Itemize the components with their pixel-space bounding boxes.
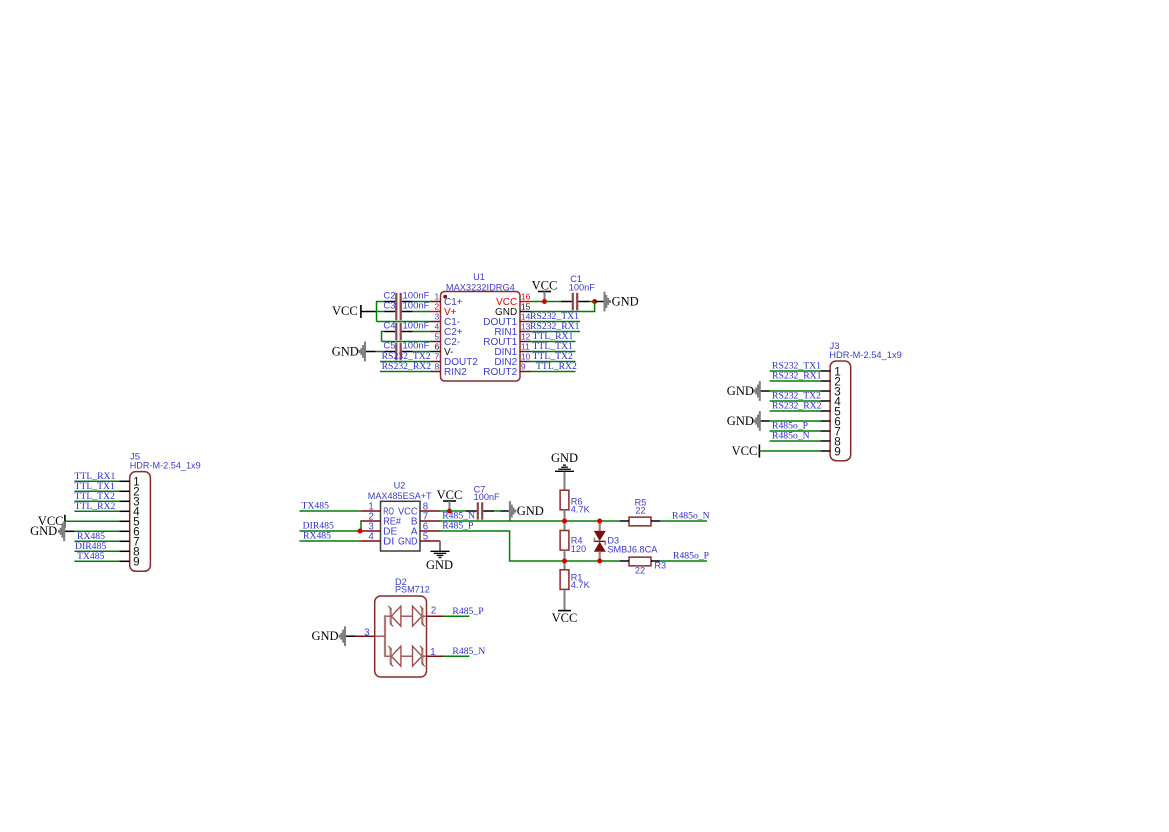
svg-text:RS232_RX2: RS232_RX2 <box>382 361 432 372</box>
wire RS232_TX1 to J3 <box>770 370 821 372</box>
J3 pin 5 <box>820 410 830 412</box>
svg-text:GND: GND <box>398 536 418 547</box>
svg-text:1: 1 <box>430 647 435 658</box>
svg-text:10: 10 <box>521 352 531 362</box>
resistor R5 22 <box>629 517 651 526</box>
U1 pin 3 (C1-) <box>431 321 441 323</box>
wire RS232_RX2 to J3 <box>770 410 821 412</box>
D2 pin 3 (GND side) <box>375 635 385 637</box>
svg-text:GND: GND <box>551 451 578 465</box>
svg-text:U2: U2 <box>394 481 406 491</box>
svg-text:GND: GND <box>312 629 339 643</box>
svg-text:5: 5 <box>434 332 439 342</box>
svg-text:R485_P: R485_P <box>442 520 473 531</box>
U2 pin 2 (RE#) <box>360 520 380 522</box>
wire C5 to U1 pin6 <box>413 351 431 353</box>
connector J5 body <box>130 472 151 572</box>
svg-text:6: 6 <box>434 342 439 352</box>
svg-text:4.7K: 4.7K <box>571 580 591 590</box>
svg-text:4: 4 <box>368 532 374 543</box>
U2 pin 4 (DI) <box>360 540 380 542</box>
J5 pin 5 <box>119 520 129 522</box>
svg-text:9: 9 <box>834 445 841 458</box>
svg-text:R485_N: R485_N <box>452 646 485 657</box>
J5 pin 7 <box>119 540 129 542</box>
J3 pin 7 <box>820 430 830 432</box>
svg-text:GND: GND <box>727 384 754 398</box>
svg-text:MAX3232IDRG4: MAX3232IDRG4 <box>446 283 515 294</box>
wire U1 pin15 (GND) to junction <box>531 302 595 312</box>
wire junction to GND flag <box>595 301 604 303</box>
svg-text:GND: GND <box>332 344 359 358</box>
D2 internal TVS pair bottom <box>385 655 391 657</box>
U1 pin 11 (DIN1) <box>520 351 531 353</box>
svg-text:GND: GND <box>727 414 754 428</box>
svg-text:HDR-M-2.54_1x9: HDR-M-2.54_1x9 <box>829 350 902 361</box>
U2 pin 7 (B) <box>420 520 440 522</box>
resistor R1 4.7K <box>560 570 569 590</box>
wire vertical C2-left to pin3 row <box>376 301 378 322</box>
IC U2 MAX485ESA+T body <box>381 501 421 551</box>
svg-text:9: 9 <box>133 556 140 569</box>
wire RX485 to J5 <box>74 540 119 542</box>
wire R5 to R485o_N end <box>660 520 707 522</box>
wire RS232_RX1 <box>531 331 581 333</box>
wire TX485 to J5 <box>74 560 119 562</box>
junction D3 top <box>597 519 602 524</box>
junction at VCC/pin16 <box>542 299 547 304</box>
svg-text:GND: GND <box>426 558 453 572</box>
svg-text:R3: R3 <box>654 560 666 570</box>
wire DIR485 to U2 pin3 <box>299 530 360 532</box>
D2 internal TVS pair top <box>385 615 391 617</box>
J3 pin 3 <box>820 390 830 392</box>
wire GND to C5 <box>376 351 385 353</box>
wire TTL_RX1 <box>531 341 576 343</box>
wire RS232_RX1 to J3 <box>770 380 821 382</box>
wire U2 pin8 to VCC junction <box>440 510 450 512</box>
svg-text:2: 2 <box>431 606 436 617</box>
svg-text:ROUT2: ROUT2 <box>483 367 517 378</box>
svg-text:VCC: VCC <box>332 304 358 318</box>
svg-text:11: 11 <box>521 342 530 352</box>
U1 pin 6 (V-) <box>431 351 441 353</box>
U1 pin 4 (C2+) <box>431 331 441 333</box>
wire U2 pin2 loop down <box>360 521 362 531</box>
J3 pin 1 <box>820 370 830 372</box>
wire C2 left to corner <box>377 301 385 303</box>
svg-text:22: 22 <box>635 566 645 576</box>
U2 pin 6 (A) <box>420 530 440 532</box>
svg-text:VCC: VCC <box>732 444 758 458</box>
wire R3 to R485o_P end <box>660 560 707 562</box>
J5 pin 1 <box>119 480 129 482</box>
wire VCC junction to C7 <box>450 510 467 512</box>
svg-text:120: 120 <box>571 544 586 554</box>
svg-text:RIN2: RIN2 <box>444 367 467 378</box>
wire VCC junction to C1 <box>545 301 562 303</box>
D2 internal vertical link <box>384 615 386 657</box>
wire GND to J3 pin6 <box>770 420 821 422</box>
J3 pin 4 <box>820 400 830 402</box>
svg-text:1: 1 <box>434 292 439 302</box>
J3 pin 8 <box>820 440 830 442</box>
junction R6/R485o_N row <box>562 519 567 524</box>
wire VCC to C3 <box>376 311 385 313</box>
wire TTL_TX2 to J5 <box>74 500 119 502</box>
ground flag GND right of C7 <box>509 501 511 521</box>
capacitor C2 100nF <box>395 293 397 310</box>
U1 pin 8 (RIN2) <box>431 371 441 373</box>
D2 pin 2 <box>427 615 445 617</box>
IC U1 MAX3232IDRG4 body <box>441 292 521 382</box>
svg-text:4.7K: 4.7K <box>571 504 591 514</box>
svg-text:8: 8 <box>434 362 439 372</box>
capacitor C5 100nF <box>395 343 397 360</box>
U1 pin 16 (VCC) <box>520 301 531 303</box>
svg-text:7: 7 <box>434 352 439 362</box>
J5 pin 4 <box>119 510 129 512</box>
J5 pin 8 <box>119 550 129 552</box>
wire vertical C4-left to pin5 row <box>381 331 383 342</box>
junction D3 bottom <box>597 559 602 564</box>
J3 pin 2 <box>820 380 830 382</box>
U2 pin 8 (VCC) <box>420 510 440 512</box>
wire C4 left to corner <box>382 331 385 333</box>
svg-text:MAX485ESA+T: MAX485ESA+T <box>368 491 432 502</box>
svg-text:GND: GND <box>612 294 639 308</box>
svg-text:VCC: VCC <box>532 279 558 293</box>
U1 pin 13 (RIN1) <box>520 331 531 333</box>
wire C2 right lead to U1 pin1 <box>413 301 431 303</box>
wire VCC to J5 pin5 <box>65 520 120 522</box>
svg-text:2: 2 <box>434 302 439 312</box>
U2 pin 5 (GND) <box>420 540 440 542</box>
svg-text:RS232_RX1: RS232_RX1 <box>772 371 822 382</box>
svg-text:R485_P: R485_P <box>452 606 483 617</box>
wire R485_P from U2 pin6 down <box>440 531 565 561</box>
wire GND to J5 pin6 <box>74 530 119 532</box>
wire C3 to U1 pin2 <box>413 311 431 313</box>
svg-text:C3: C3 <box>383 300 395 311</box>
wire R485_P row to R3 <box>565 560 621 562</box>
svg-text:R485o_P: R485o_P <box>673 551 709 562</box>
wire C7 to GND flag <box>494 510 500 512</box>
wire C4 to U1 pin4 <box>413 331 431 333</box>
U1 pin 15 (GND) <box>520 311 531 313</box>
svg-text:5: 5 <box>423 532 428 543</box>
power flag VCC below R1 <box>558 610 571 612</box>
junction at U2 pin8/VCC <box>447 509 452 514</box>
U2 pin 3 (DE) <box>360 530 380 532</box>
wire RX485 to U2 pin4 <box>299 540 360 542</box>
svg-text:3: 3 <box>434 312 439 322</box>
capacitor C3 100nF <box>395 303 397 320</box>
svg-text:TTL_RX2: TTL_RX2 <box>536 361 577 372</box>
svg-text:22: 22 <box>635 506 645 516</box>
U1 pin 5 (C2-) <box>431 341 441 343</box>
svg-text:R485o_N: R485o_N <box>672 511 710 522</box>
wire R485o_P to J3 <box>770 430 821 432</box>
U1 pin 7 (DOUT2) <box>431 361 441 363</box>
wire pin5 row <box>382 341 431 343</box>
U1 pin 10 (DIN2) <box>520 361 531 363</box>
svg-text:GND: GND <box>517 504 544 518</box>
wire RS232_TX2 to U1 pin7 <box>380 361 431 363</box>
wire TTL_TX1 to J5 <box>74 490 119 492</box>
svg-text:DI: DI <box>383 536 394 547</box>
wire R1 to VCC <box>564 589 566 610</box>
svg-text:HDR-M-2.54_1x9: HDR-M-2.54_1x9 <box>130 460 201 471</box>
wire R485_N at D2 <box>444 655 469 657</box>
U1 pin 14 (DOUT1) <box>520 321 531 323</box>
svg-text:VCC: VCC <box>552 611 578 625</box>
svg-text:100nF: 100nF <box>569 282 595 292</box>
wire RS232_TX1 <box>531 321 581 323</box>
wire R6 to R4 <box>564 510 566 531</box>
svg-text:3: 3 <box>364 628 369 639</box>
capacitor C4 100nF <box>395 323 397 340</box>
resistor R6 4.7K <box>560 490 569 510</box>
wire TTL_RX1 to J5 <box>74 480 119 482</box>
U1 pin 12 (ROUT1) <box>520 341 531 343</box>
svg-text:TX485: TX485 <box>302 501 330 512</box>
svg-text:U1: U1 <box>473 272 485 282</box>
svg-text:RX485: RX485 <box>303 531 331 542</box>
junction at U2 pin3 <box>358 529 363 534</box>
diode array D2 PSM712 body <box>375 596 427 677</box>
svg-text:TX485: TX485 <box>77 551 105 562</box>
junction at C1/GND <box>592 299 597 304</box>
J5 pin 9 <box>119 560 129 562</box>
wire TTL_TX1 <box>531 351 576 353</box>
wire R4 to R1 <box>564 550 566 570</box>
svg-text:R485o_N: R485o_N <box>772 431 810 442</box>
svg-text:16: 16 <box>521 292 531 302</box>
svg-text:SMBJ6.8CA: SMBJ6.8CA <box>607 544 658 554</box>
J5 pin 3 <box>119 500 129 502</box>
svg-text:VCC: VCC <box>437 488 463 502</box>
J5 pin 6 <box>119 530 129 532</box>
wire TTL_RX2 <box>531 371 576 373</box>
wire DIR485 to J5 <box>74 550 119 552</box>
wire R485_P at D2 <box>444 615 469 617</box>
J3 pin 6 <box>820 420 830 422</box>
wire GND to J3 pin3 <box>770 390 821 392</box>
wire R485o_N to J3 <box>770 440 821 442</box>
wire C1 to GND junction <box>589 301 595 303</box>
ground GND below U2 pin5 <box>431 550 450 552</box>
wire TTL_RX2 to J5 <box>74 510 119 512</box>
wire TX485 to U2 pin1 <box>299 510 360 512</box>
svg-text:PSM712: PSM712 <box>395 585 430 596</box>
wire VCC to J3 pin9 <box>759 450 820 452</box>
svg-text:12: 12 <box>521 332 531 342</box>
svg-text:100nF: 100nF <box>474 492 500 502</box>
svg-text:GND: GND <box>30 524 57 538</box>
wire U2 pin5 down <box>439 541 441 551</box>
U1 pin 2 (V+) <box>431 311 441 313</box>
U2 pin 1 (RO) <box>360 510 380 512</box>
junction R4/R485o_P row <box>562 559 567 564</box>
ground flag GND right of C1 <box>603 292 605 312</box>
wire R485_N row (U2 pin7 to R5) <box>440 520 620 522</box>
connector J3 body <box>830 361 851 461</box>
svg-text:4: 4 <box>434 322 439 332</box>
svg-text:9: 9 <box>521 362 526 372</box>
wire TTL_TX2 <box>531 361 576 363</box>
capacitor C7 100nF <box>477 502 479 519</box>
resistor R3 22 <box>629 557 651 566</box>
D2 pin 1 <box>427 655 445 657</box>
svg-text:TTL_RX2: TTL_RX2 <box>75 501 116 512</box>
U1 pin 1 (C1+) <box>431 301 441 303</box>
resistor R4 120 <box>560 531 569 551</box>
U1 pin 9 (ROUT2) <box>520 371 531 373</box>
wire pin3 row <box>377 321 431 323</box>
wire RS232_RX2 to U1 pin8 <box>380 371 431 373</box>
wire RS232_TX2 to J3 <box>770 400 821 402</box>
capacitor C1 100nF <box>572 293 574 310</box>
diode D3 SMBJ6.8CA <box>599 521 601 532</box>
svg-text:RS232_RX2: RS232_RX2 <box>772 401 822 412</box>
J5 pin 2 <box>119 490 129 492</box>
wire U1 pin16 to VCC junction <box>531 301 545 303</box>
J3 pin 9 <box>820 450 830 452</box>
